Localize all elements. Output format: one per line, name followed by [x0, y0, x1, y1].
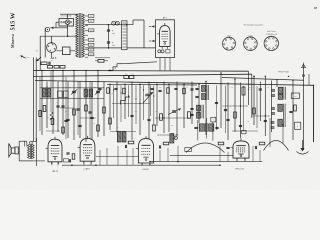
loudspeaker	[9, 141, 34, 161]
resistor R15	[62, 127, 65, 133]
capacitor C5	[195, 88, 198, 97]
wire	[40, 71, 90, 139]
wire	[60, 107, 74, 109]
resistor block	[291, 93, 299, 99]
coil L9	[278, 87, 283, 93]
capacitor C21	[159, 145, 160, 148]
switch contact bank wires	[113, 85, 154, 125]
bus wire	[107, 83, 197, 86]
resistor R22	[234, 112, 237, 118]
capacitor C8	[194, 124, 197, 133]
wire	[150, 161, 262, 163]
trimmer cap	[271, 90, 275, 96]
resistor R21	[109, 118, 112, 124]
capacitor C20	[69, 159, 70, 162]
bus wire	[34, 70, 249, 105]
tube socket view AZ1	[244, 35, 258, 50]
trimmer cap	[271, 108, 275, 114]
socket note text	[244, 24, 264, 26]
tube socket view EM4	[223, 35, 236, 50]
resistor R2	[54, 66, 59, 69]
resistor R33	[183, 88, 186, 94]
wire	[160, 58, 170, 71]
coil L2	[47, 89, 51, 98]
wire	[67, 28, 69, 36]
resistor R4	[48, 66, 53, 69]
tube pins	[158, 50, 170, 53]
resistor R27	[128, 141, 134, 144]
wire	[75, 14, 78, 36]
tube V3	[78, 136, 95, 164]
capacitor C11	[66, 119, 69, 120]
resistor R16	[73, 109, 76, 115]
resistor R26	[163, 142, 169, 145]
resistor R31	[123, 88, 126, 94]
coil L5	[278, 87, 285, 100]
capacitor C27	[150, 88, 153, 89]
power transformer T1 core	[79, 13, 81, 58]
coil L7	[122, 132, 126, 143]
wire	[198, 118, 213, 141]
jack	[174, 136, 177, 139]
power transformer T1 primary winding	[76, 14, 78, 57]
wire	[85, 47, 155, 49]
resistor R13	[43, 106, 46, 112]
small box	[185, 148, 192, 152]
capacitor C32	[64, 109, 91, 122]
resistor R25	[72, 154, 75, 160]
capacitor C26	[114, 88, 117, 89]
resistor R18	[97, 125, 100, 131]
wire	[100, 146, 260, 165]
wire	[110, 131, 136, 133]
coil L3	[84, 89, 88, 97]
resistor R24	[294, 105, 297, 111]
wire	[270, 118, 283, 147]
resistor R7	[58, 91, 63, 98]
shield box	[156, 20, 175, 58]
wire	[60, 14, 75, 18]
shield dome	[186, 143, 225, 153]
capacitor C9	[215, 127, 218, 128]
wire	[40, 87, 104, 89]
wire	[96, 156, 138, 158]
wire	[30, 58, 37, 142]
band switch S2	[108, 62, 157, 72]
capacitor C14	[147, 119, 150, 120]
wire	[46, 130, 60, 132]
wire	[30, 138, 45, 166]
resistor R10	[295, 122, 301, 129]
capacitor C22	[125, 145, 126, 148]
resistor R14	[51, 119, 54, 125]
resistor R30	[107, 88, 110, 94]
label EBF2	[83, 169, 91, 171]
fuse F1	[45, 27, 50, 31]
wire	[40, 36, 45, 57]
voltage selector label	[60, 16, 72, 18]
small box	[64, 159, 69, 162]
wire	[257, 72, 262, 74]
wire	[252, 115, 270, 117]
label EF9	[235, 168, 244, 170]
label ECH3	[141, 169, 149, 171]
wire	[133, 20, 144, 48]
capacitor C17	[239, 125, 242, 126]
wire	[155, 117, 190, 119]
capacitor C6	[259, 89, 262, 90]
tube V5 EF9	[231, 138, 250, 160]
capacitor C12	[78, 125, 81, 126]
terminal label	[25, 57, 30, 59]
resistor R1	[41, 62, 47, 65]
capacitor C28	[158, 90, 161, 91]
capacitor C18	[264, 120, 267, 121]
capacitor C16	[226, 119, 229, 120]
small box	[242, 130, 246, 133]
terminal label	[35, 51, 37, 53]
wire	[95, 57, 110, 59]
wire	[112, 103, 150, 105]
coil L1	[43, 89, 47, 98]
resistor R32	[167, 88, 170, 94]
wire	[62, 164, 220, 166]
wire right edge	[309, 74, 314, 142]
resistor R12	[188, 112, 191, 119]
coil L6	[117, 132, 121, 143]
label AZ 1	[50, 56, 57, 60]
output tube AL4	[46, 137, 63, 165]
tube socket view CL4	[264, 30, 278, 51]
resistor R20	[153, 125, 156, 131]
page number 5	[313, 7, 318, 10]
resistor R34	[95, 59, 108, 62]
capacitor C29	[174, 88, 177, 89]
trimmer cap	[95, 90, 101, 95]
resistor R5	[124, 74, 129, 79]
tuning cap arrow	[168, 109, 181, 115]
vertical wires	[42, 70, 314, 142]
label AF 7	[163, 16, 168, 19]
bus wire	[34, 74, 304, 118]
wire	[232, 130, 258, 132]
antenna A	[278, 63, 305, 151]
wire	[222, 105, 248, 107]
capacitor C30	[190, 89, 193, 90]
resistor R17	[85, 105, 88, 111]
wire	[40, 98, 104, 100]
resistor R11	[160, 114, 163, 121]
resistor R28	[259, 142, 265, 145]
capacitor C25	[98, 88, 101, 89]
electrolytic C1	[107, 25, 116, 48]
resistor R9	[242, 87, 250, 95]
capacitor C3	[49, 60, 53, 65]
resistor R6	[129, 74, 134, 79]
dial lamps	[112, 21, 120, 25]
wire	[85, 24, 133, 26]
wire	[51, 22, 68, 28]
rectifier tube AZ1	[47, 36, 57, 57]
wire	[85, 16, 88, 57]
resistor R19	[103, 107, 106, 113]
band switch S3	[121, 97, 131, 105]
small box	[211, 117, 216, 122]
capacitor C23	[255, 146, 256, 149]
wire	[44, 63, 46, 70]
power transformer T1 secondary winding	[82, 14, 84, 57]
tuning cap arrow	[143, 92, 153, 103]
capacitor C33	[215, 102, 227, 110]
resistor R29	[218, 142, 224, 145]
wire	[61, 162, 63, 165]
wire	[157, 134, 178, 136]
label AL 4	[52, 169, 58, 173]
title text Minerva 515 W	[10, 12, 17, 48]
fuse plug arrow	[51, 27, 54, 29]
trimmer cap	[71, 90, 77, 95]
resistor R8	[64, 91, 69, 98]
wire	[39, 58, 41, 71]
bus wire	[35, 81, 314, 86]
resistor R35	[50, 112, 53, 120]
capacitor C10	[56, 106, 64, 107]
capacitor C31	[190, 108, 193, 115]
capacitor C4	[145, 91, 150, 103]
transformer tap labels	[88, 15, 94, 57]
voltage selector S1	[59, 19, 74, 27]
capacitor C13	[90, 117, 93, 118]
IF transformer T4	[199, 123, 214, 132]
wire	[80, 117, 96, 119]
IF transformer T2	[202, 85, 209, 100]
resistor R23	[253, 108, 256, 114]
value labels	[46, 86, 269, 129]
resistor block	[56, 47, 75, 55]
coil L8	[170, 134, 174, 144]
tube V1	[157, 23, 170, 49]
coil L4	[89, 89, 93, 97]
electrolytic C2	[107, 42, 116, 48]
wire	[52, 158, 245, 165]
resistor R3	[60, 66, 65, 69]
capacitor C7	[289, 111, 292, 112]
IF transformer T6	[197, 105, 204, 119]
capacitor C19	[66, 149, 69, 158]
output transformer T5	[28, 144, 35, 159]
ground	[297, 140, 309, 154]
capacitor C15	[130, 115, 133, 116]
wire	[217, 86, 258, 134]
capacitor C24	[226, 147, 229, 148]
grid cap connectors	[149, 25, 155, 42]
mains plug arrow	[21, 56, 26, 59]
wire	[40, 28, 75, 37]
tube V4 ECH	[136, 136, 154, 165]
IF transformer T3	[278, 104, 285, 127]
mains switch arrow	[37, 57, 42, 61]
junction dots	[41, 70, 314, 86]
wire	[170, 154, 233, 156]
resistor R36	[39, 111, 41, 117]
wire	[276, 101, 278, 104]
shield dome	[264, 141, 289, 151]
field coil choke	[122, 21, 127, 50]
trimmer cap	[271, 122, 275, 128]
